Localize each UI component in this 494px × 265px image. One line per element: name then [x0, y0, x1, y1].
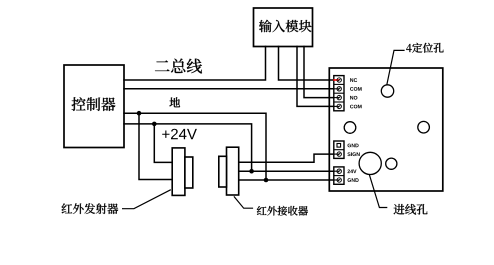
IR receiver body	[227, 147, 239, 195]
wire: +24V rail from controller	[124, 124, 252, 171]
terminal GND2 screw	[334, 179, 339, 181]
label +24V	[162, 129, 197, 140]
power terminal block (24V GND)	[334, 167, 344, 184]
label 24V	[348, 170, 357, 174]
wire bus line B: controller to COM terminal	[124, 88, 334, 90]
IR transmitter lens	[185, 157, 193, 188]
label NC	[350, 78, 357, 82]
wire: +24V branch to IR transmitter	[154, 124, 172, 162]
positioning hole left	[344, 122, 356, 134]
IR transmitter body	[172, 148, 185, 196]
wire inlet hole	[359, 152, 381, 174]
wire: ground rail from controller	[124, 113, 266, 180]
label 进线孔 (wire inlet hole)	[394, 204, 428, 215]
label COM	[350, 87, 362, 91]
terminal COM screw	[334, 88, 339, 90]
label GND	[348, 144, 359, 148]
wire bus line A: controller to input module	[124, 47, 266, 81]
wire: receiver signal to SIGN terminal	[239, 154, 334, 162]
junction dot: ground rail / transmitter branch	[137, 111, 142, 116]
signal terminal block (GND SIGN)	[334, 141, 344, 158]
junction dot: +24V rail / transmitter branch	[152, 122, 157, 127]
input module box	[254, 8, 313, 47]
pointer line to IR transmitter	[122, 190, 171, 209]
wire: receiver +24V to 24V terminal	[239, 170, 334, 172]
label SIGN	[347, 152, 359, 156]
terminal 24V screw	[334, 170, 339, 172]
label 二总线 (two-wire bus)	[155, 59, 202, 74]
controller box	[64, 65, 124, 148]
pointer line to positioning hole	[387, 50, 405, 85]
relay terminal block (NC COM NO COM)	[334, 76, 344, 111]
terminal GND square pad (unused)	[337, 144, 341, 148]
label 输入模块 (input module)	[259, 20, 312, 32]
terminal SIGN screw	[334, 153, 339, 155]
positioning hole top	[381, 85, 393, 97]
terminal COM2 screw	[334, 105, 339, 107]
terminal NC screw with red lead	[333, 79, 339, 81]
wire: input module to lower COM terminal	[297, 47, 334, 107]
label 4定位孔 (4 positioning holes)	[406, 43, 443, 53]
junction dot: +24V rail / receiver 24V wire	[249, 169, 254, 174]
label 地 (ground)	[169, 97, 180, 107]
label 红外发射器 (IR transmitter)	[62, 203, 119, 214]
label COM2	[350, 105, 362, 109]
junction dot: ground rail / receiver GND wire	[264, 178, 269, 183]
positioning hole right	[418, 121, 430, 133]
pointer line to IR receiver	[234, 196, 253, 208]
label GND2	[348, 178, 359, 182]
wire: receiver ground to GND terminal	[239, 179, 334, 181]
label NO	[350, 96, 357, 100]
label 红外接收器 (IR receiver)	[257, 206, 308, 216]
pointer line to wire inlet hole	[369, 174, 387, 207]
detector PCB board outline	[329, 68, 443, 191]
wire: input module to NC terminal	[279, 47, 334, 81]
wire: input module to NO terminal	[304, 47, 334, 98]
terminal NO screw	[334, 97, 339, 99]
wire: ground branch to IR transmitter	[139, 113, 172, 179]
positioning hole bottom	[386, 158, 397, 169]
label 控制器 (controller)	[72, 97, 116, 111]
IR receiver lens	[219, 156, 227, 187]
